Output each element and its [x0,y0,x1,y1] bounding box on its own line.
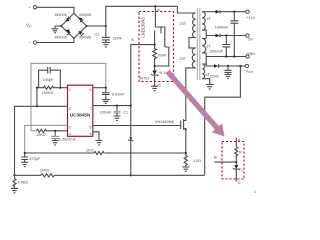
node A junction dot [154,5,156,7]
wire from - terminal to bridge bottom vertex [37,38,74,42]
node divider junction [13,174,15,176]
node RC left [36,87,38,89]
ground (6T bottom) [206,85,214,89]
transistor Q1 VN2460N8 [155,119,187,153]
svg-text:C: C [158,83,161,88]
svg-text:20KΩ: 20KΩ [40,168,50,172]
wire jog between primary windings [189,38,196,48]
ground (VOUT cap) [225,75,232,79]
svg-text:23T: 23T [180,57,187,61]
node +12V cap junction [233,11,235,13]
diode (VOUT rectifier) [214,64,245,68]
wire primary top lead from rail [177,6,195,13]
IC U1 UC3845N box [68,85,93,136]
svg-text:4T: 4T [207,17,212,21]
ground (C2) [102,43,110,47]
ground (node C) [151,86,158,90]
winding primary 23T upper [180,13,196,38]
wire pin6 gate line [93,125,181,127]
wire 6T top to VOUT diode line [202,64,214,66]
node CS filter junction [24,152,26,154]
node zener junction [154,65,156,67]
svg-text:0.0022mF: 0.0022mF [59,138,77,142]
svg-text:1.0Ω: 1.0Ω [193,159,201,163]
wire 4T-3T tap [202,30,215,38]
resistor 4.9KO [13,175,28,188]
winding secondary 3T [202,39,211,53]
wire pin3 to CS filter [25,125,68,153]
node B junction (inset) [235,161,237,163]
node 5V cap junction [225,34,227,36]
resistor 150KO [37,86,60,95]
node 0.0022 junction [54,130,56,132]
wire VREF loop pin8 to pin4 [93,87,106,89]
pink arrow [166,70,225,137]
winding secondary 6T [202,64,210,79]
resistor 10KO (pin4) [36,129,68,137]
svg-text:4: 4 [69,132,71,136]
wire bottom divider rail with 20K [15,174,205,176]
diode D1 IN4006 top-left [55,13,71,21]
node rail junction [130,174,132,176]
svg-text:5: 5 [89,132,91,136]
resistor 20KO [40,168,55,177]
svg-text:1KΩ: 1KΩ [86,149,94,153]
svg-text:23T: 23T [180,22,187,26]
resistor 1KO [86,149,104,155]
svg-text:R: R [239,151,242,155]
dashed box (LND150N3 startup circuit) [139,12,174,82]
wire 4T to +12V diode line [202,11,215,13]
capacitor 100pF (parallel) [39,67,61,88]
wire A stub (inset) [235,138,237,147]
ground (0.01mF) [102,100,110,104]
capacitor 0.01mF (pin8) [102,88,125,100]
svg-text:1000mF: 1000mF [215,25,230,29]
wire LND150 source loop [155,47,169,66]
node VCC-K junction [130,105,132,107]
terminal +12v [246,10,255,20]
node bridge right junction [86,25,88,27]
wire CS line [25,152,186,154]
zener diode IN757 9.1V [140,66,169,86]
svg-text:7: 7 [89,107,91,111]
capacitor 22mF (VOUT) [210,66,232,79]
svg-text:LND150N3: LND150N3 [140,17,145,38]
winding secondary 4T [202,12,211,30]
svg-text:IN4006: IN4006 [55,36,67,40]
wire bridge right to C2 node [87,25,106,27]
svg-text:C1: C1 [123,110,128,114]
svg-text:100mF: 100mF [100,110,112,114]
wire bridge left to ground [55,26,61,29]
svg-text:1000mF: 1000mF [209,50,224,54]
svg-text:C: C [238,180,241,185]
wire feedback from VOUT down to divider rail [205,66,241,175]
ground (bridge left) [52,29,59,33]
svg-text:3: 3 [69,125,71,129]
svg-text:1: 1 [69,88,71,92]
wire VCC down to bottom rail [130,106,132,176]
svg-text:IN4006: IN4006 [79,13,91,17]
capacitor 1000mF (5V) [209,36,230,57]
wire 6T bottom to ground [202,79,210,85]
wire node B (inset) [215,161,237,163]
svg-text:5V: 5V [248,37,253,41]
node GND junctions [225,55,227,57]
svg-text:2: 2 [69,107,71,111]
node K gate junction [154,44,156,46]
ground (pin5) [96,141,103,145]
capacitor C1 100mF [100,106,129,116]
wire node K left and down (gate line) [131,45,155,106]
wire DC rail up and right to node A [106,6,178,26]
svg-text:K: K [132,37,135,42]
capacitor 470pF [21,153,41,162]
diode D4 IN4006 bottom-right [79,31,92,40]
terminal - (AC input negative) [29,40,37,45]
diode D3 IN4006 bottom-left [55,29,71,39]
svg-text:470pF: 470pF [30,157,41,161]
winding primary 23T lower [180,48,196,68]
resistor 1.0O (sense) [184,153,201,167]
svg-text:UC3845N: UC3845N [70,112,91,117]
zener (small) in VCC drop wire [128,137,133,141]
diode (+12V rectifier) [216,10,246,14]
svg-text:IN757: IN757 [140,77,150,81]
diode (5V rectifier) [216,34,246,38]
wire 3T-6T tap to GND line [202,53,246,66]
wire primary bottom to VN2460N8 drain [186,68,196,119]
wire pin1 to RC network [60,87,67,89]
svg-text:3T: 3T [206,44,211,48]
capacitor C2 22mF [95,26,123,42]
node sense junction [185,152,187,154]
terminal 5V [246,34,254,42]
node bridge left junction [60,25,62,27]
svg-text:1: 1 [254,190,256,194]
wire pin2 to divider [15,106,68,175]
svg-text:22mF: 22mF [113,37,123,41]
transistor LND150N3 (depletion MOSFET) [155,27,165,47]
svg-text:C2: C2 [95,33,100,37]
bridge diamond wires [61,13,86,38]
terminal VOUT [245,64,254,74]
svg-text:4.9KΩ: 4.9KΩ [18,181,29,185]
svg-text:VN2460N8: VN2460N8 [155,120,174,124]
node C1 junction [116,105,118,107]
svg-text:B: B [214,155,217,160]
ground (4.9K) [11,188,18,192]
svg-text:8: 8 [89,88,91,92]
ground (470pF) [21,162,28,166]
node pin2 junction [36,105,38,107]
node VOUT cap junction [227,65,229,67]
svg-text:IN4006: IN4006 [79,36,91,40]
svg-text:10KΩ: 10KΩ [36,133,46,137]
capacitor 1000mF (12V) [215,12,239,57]
node VOUT feedback junction [239,65,241,67]
wire from + terminal to bridge top vertex [37,7,74,13]
node pin1 RC right [59,87,61,89]
svg-text:IN4006: IN4006 [55,13,67,17]
svg-text:+12v: +12v [246,16,254,20]
wire pin7 VCC line [93,105,131,107]
wire pin5 to ground [93,132,99,141]
ground (sense resistor) [182,167,189,171]
svg-text:150KΩ: 150KΩ [42,91,54,95]
dashed box (equivalent circuit inset) [222,142,244,180]
svg-text:200K: 200K [158,54,167,58]
ground (0.0022mF) [52,141,59,145]
transformer core [197,8,199,80]
diode D2 IN4006 top-right [78,13,91,22]
svg-text:6: 6 [89,125,91,129]
terminal GND [246,52,255,58]
zener VZ (inset) [233,162,243,181]
terminal + (AC input positive) [29,5,37,10]
ground (C1) [114,116,121,120]
resistor R (inset) [235,147,242,162]
svg-text:GND: GND [247,52,256,56]
capacitor 0.0022mF [51,131,77,142]
wire node A down to LND150 drain [154,6,156,27]
svg-text:100pF: 100pF [43,78,54,82]
node DC rail junction at C2 [105,25,107,27]
svg-text:0.01mF: 0.01mF [112,92,126,96]
resistor 200K [153,45,167,66]
svg-text:A: A [238,137,241,142]
wire RC left down to pin2 line [36,88,38,107]
node pin8 junction [105,87,107,89]
svg-text:22mF: 22mF [210,75,220,79]
